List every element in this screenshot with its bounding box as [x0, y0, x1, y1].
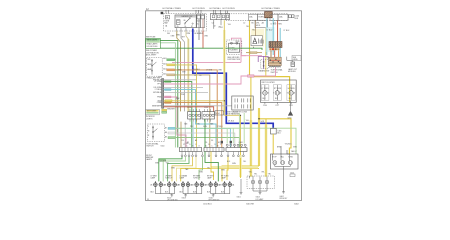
svg-text:LT BLU: LT BLU [271, 24, 277, 26]
wire license feeds [249, 176, 267, 180]
svg-text:HAZARD SW: HAZARD SW [182, 15, 193, 18]
svg-text:PPL: PPL [157, 84, 161, 86]
instrument cluster connector box [232, 96, 253, 110]
svg-text:BLK: BLK [295, 18, 299, 20]
svg-text:E1: E1 [218, 142, 220, 144]
wire pale green twin [161, 43, 176, 148]
svg-text:RR BODY: RR BODY [280, 198, 289, 200]
ground G403 center [259, 192, 262, 194]
svg-text:C220: C220 [204, 107, 208, 109]
svg-text:C202: C202 [158, 77, 162, 79]
svg-text:12: 12 [146, 8, 149, 11]
wire green lower from switch2 [176, 138, 240, 148]
wire gray drop to bar [184, 122, 186, 148]
svg-text:ORN: ORN [218, 69, 223, 71]
svg-text:B8: B8 [165, 132, 167, 134]
svg-text:TOW HARNESS: TOW HARNESS [227, 113, 240, 116]
node terminal circles row [181, 155, 244, 157]
wire yellow below connector [272, 134, 274, 154]
node ladder pin labels [152, 79, 162, 107]
svg-text:HOT AT ALL TIMES: HOT AT ALL TIMES [262, 7, 281, 10]
wire relay pins down [177, 19, 203, 31]
svg-text:BLK: BLK [151, 192, 155, 194]
junction block JB top right [211, 13, 230, 19]
lamp license 1 [251, 180, 255, 184]
lamp license 3 [265, 180, 269, 184]
node label box right edge [292, 56, 301, 61]
wire green row2 [164, 82, 192, 148]
lamp pair LF marker [154, 181, 163, 186]
wire yellow to rear right [259, 119, 291, 154]
wire cream band drop from fuse [187, 39, 189, 111]
lamp high beam indicator [287, 85, 296, 107]
svg-text:15A: 15A [249, 16, 253, 19]
ground G103 [184, 195, 187, 197]
svg-text:C2: C2 [212, 22, 214, 24]
wire white lower from switch2 [176, 133, 235, 147]
svg-text:C264: C264 [263, 105, 267, 107]
wire code cell green row [163, 57, 174, 76]
node cluster internal sub-boxes [261, 85, 295, 101]
wire terminal stubs [182, 152, 243, 155]
svg-text:TURN: TURN [288, 156, 293, 158]
connector hatched top [265, 12, 273, 18]
ground G402 [282, 192, 285, 194]
svg-text:2A: 2A [165, 25, 168, 28]
svg-text:BRN: BRN [277, 147, 281, 149]
wire yellow from switch cell [175, 65, 197, 147]
svg-text:YEL: YEL [254, 173, 257, 175]
svg-text:BLK: BLK [275, 98, 279, 100]
inline connector C2 blue end [271, 128, 277, 134]
wire code cell on green wire [160, 159, 166, 161]
fuse F2 [197, 16, 200, 19]
wire green from legend box [161, 41, 178, 148]
svg-text:87: 87 [191, 26, 193, 28]
lamp left indicator [261, 85, 270, 107]
lamp rear 3 [288, 161, 292, 165]
svg-text:B1: B1 [221, 27, 223, 29]
node pin labels above bars [180, 144, 221, 148]
svg-text:YEL: YEL [166, 163, 169, 165]
svg-text:RF TURN SIG: RF TURN SIG [209, 199, 220, 201]
wire yellow pale under distribution [211, 166, 258, 168]
wire green drop lamp6 [199, 157, 202, 180]
svg-text:A4: A4 [262, 22, 264, 25]
svg-text:G402: G402 [294, 203, 299, 205]
svg-text:S204: S204 [235, 41, 239, 43]
svg-text:YEL: YEL [252, 29, 255, 31]
svg-text:DRL MODULE: DRL MODULE [147, 46, 159, 48]
wire yellow long2 from right [181, 168, 259, 181]
lamp pair LF park turn [167, 181, 176, 186]
wire yellow core rear left [240, 158, 242, 178]
wire cyan hazard feed [266, 18, 268, 55]
hazard switch dashed box [261, 60, 268, 69]
svg-text:1F: 1F [194, 75, 196, 77]
fuse box cell 1 [248, 14, 257, 20]
svg-text:PARK: PARK [147, 63, 152, 66]
wire code cells right of box2 [162, 109, 167, 111]
connector C100 top right [289, 15, 292, 18]
headlamp switch legend box [146, 38, 161, 48]
border frame of schematic [146, 11, 302, 201]
wire pink long from switch [172, 56, 262, 63]
svg-text:PPL: PPL [190, 126, 193, 128]
svg-text:B: B [208, 144, 209, 146]
svg-text:A12: A12 [163, 57, 166, 60]
svg-text:MOD: MOD [256, 25, 261, 27]
svg-text:ORN: ORN [157, 102, 162, 104]
wire yellow cluster loop [250, 77, 290, 103]
wire yellow feed down from ign fuse [249, 21, 251, 77]
svg-text:ANTI-THEFT: ANTI-THEFT [146, 54, 157, 57]
svg-text:A14: A14 [163, 67, 166, 70]
svg-text:F: F [220, 144, 221, 146]
wire orange row9 [164, 103, 222, 148]
node note block left bottom [146, 155, 154, 161]
node colored cells under connector [269, 48, 279, 50]
ground G105 [212, 195, 215, 197]
svg-text:85: 85 [177, 26, 179, 28]
svg-text:LT TURN: LT TURN [262, 88, 270, 90]
svg-text:G401: G401 [237, 197, 241, 199]
connector row C1 left [188, 109, 201, 122]
license lamp dashed box [247, 176, 275, 188]
turn signal switch dashed box lower [147, 124, 164, 142]
svg-text:YEL: YEL [246, 26, 249, 28]
wire green cascade 1 [159, 157, 182, 182]
svg-text:LAMPS: LAMPS [146, 158, 153, 161]
svg-text:A15: A15 [163, 72, 166, 75]
wire rear lamp internals [273, 154, 291, 169]
wire blue main feed [193, 29, 273, 129]
svg-text:PARK LAMPS: PARK LAMPS [147, 38, 159, 41]
wire tan from switch cell [175, 75, 210, 147]
ground G200 chassis [290, 101, 292, 111]
wire red drop from fuse panel [202, 31, 204, 49]
wire pale yellow cascade 5 [176, 157, 196, 182]
wire pink flasher to switch [231, 38, 246, 56]
wire dark drop right of blue [198, 31, 200, 40]
svg-text:340: 340 [167, 33, 170, 35]
svg-text:HOT IN RUN: HOT IN RUN [223, 8, 236, 10]
svg-text:DK BLU: DK BLU [194, 69, 201, 71]
svg-text:E: E [217, 146, 218, 148]
svg-text:GRN: GRN [171, 168, 176, 170]
wire pale green drops [227, 113, 244, 144]
svg-text:B6: B6 [251, 23, 253, 25]
fuse F1 15A [165, 16, 169, 19]
instrument cluster indicators box [261, 80, 297, 102]
node splice dots [224, 100, 260, 119]
svg-text:TURN: TURN [258, 17, 264, 19]
svg-text:G200: G200 [287, 118, 291, 120]
resistor R1 [287, 57, 293, 62]
svg-text:2B: 2B [219, 185, 222, 187]
svg-text:B7: B7 [165, 127, 167, 129]
svg-text:A: A [205, 145, 207, 148]
svg-text:FLASHER: FLASHER [229, 49, 238, 52]
wire gray row4 [164, 87, 203, 89]
wire pale yellow band feed [251, 29, 264, 47]
svg-text:CRM: CRM [186, 33, 190, 35]
lamp pair mid right [209, 181, 218, 186]
svg-text:GRN: GRN [232, 163, 237, 165]
svg-text:2A: 2A [232, 184, 235, 187]
svg-text:BRN/WHT: BRN/WHT [167, 109, 175, 111]
svg-text:LT GRN: LT GRN [206, 69, 213, 71]
svg-text:SWITCH: SWITCH [271, 72, 279, 74]
fuse box cell 2 [258, 14, 268, 20]
svg-text:LT BLU: LT BLU [284, 30, 290, 32]
svg-text:HOT AT ALL: HOT AT ALL [210, 7, 222, 10]
node corner marker [161, 12, 164, 14]
wire pale green cascade 2 [163, 157, 185, 182]
svg-text:LIGHTS: LIGHTS [146, 118, 153, 120]
lamp right indicator [273, 85, 282, 107]
svg-text:SWITCH: SWITCH [146, 146, 154, 148]
wire pink row3 [164, 68, 276, 85]
lamp pair mid [195, 181, 204, 186]
wire cyan second [279, 28, 281, 57]
svg-text:LT BLU: LT BLU [267, 30, 273, 32]
svg-text:HI TURN: HI TURN [288, 88, 296, 90]
wire green from switch cell [174, 59, 177, 61]
svg-text:S411: S411 [261, 121, 265, 123]
svg-text:10A: 10A [197, 20, 201, 23]
node scattered wire labels [155, 20, 298, 175]
wire gray row10 [164, 105, 232, 107]
svg-text:BRN/WHT: BRN/WHT [152, 106, 162, 108]
wire to G401 [240, 179, 242, 192]
lamp rear 2 [281, 161, 285, 165]
wire pale blue drop [192, 122, 194, 148]
daytime running module box with triangle [251, 36, 263, 46]
svg-text:HAZ: HAZ [267, 57, 270, 60]
svg-text:2B: 2B [191, 185, 194, 187]
svg-text:A9: A9 [195, 139, 197, 142]
svg-text:INST CLUSTER: INST CLUSTER [262, 82, 276, 84]
svg-text:S214: S214 [216, 113, 220, 115]
svg-text:C2: C2 [243, 23, 245, 25]
wire green cascade 3 [168, 157, 189, 182]
svg-text:1C: 1C [197, 23, 200, 25]
wire ground links under lamps [155, 186, 229, 195]
wire gray row1 [164, 79, 196, 81]
svg-text:OFF: OFF [147, 59, 150, 61]
svg-text:TURN LP: TURN LP [193, 177, 201, 179]
svg-text:ORN: ORN [171, 35, 176, 37]
svg-text:SEE POWER: SEE POWER [147, 110, 158, 112]
wire cyan inner [272, 18, 274, 55]
ground G102 [170, 195, 173, 197]
connector C420 stub [290, 174, 295, 177]
turn signal connector block hatched [269, 57, 282, 67]
svg-text:2B: 2B [164, 185, 167, 187]
wire yellow drop lamp4 [211, 152, 214, 181]
junction box B+ mid [255, 20, 268, 27]
svg-text:N: N [148, 131, 150, 133]
svg-text:RED: RED [278, 24, 282, 26]
fuse F3 [201, 16, 204, 19]
wire pale green long horizontal [176, 128, 296, 154]
svg-text:TURN LP: TURN LP [165, 177, 173, 179]
wire license grounds [253, 184, 267, 193]
wire orange from switch cell [175, 70, 218, 147]
svg-text:YEL: YEL [261, 172, 264, 174]
svg-text:F: F [195, 144, 196, 146]
wire yellow branch license [265, 119, 267, 176]
wire gray row6 [164, 91, 208, 93]
svg-text:BLK: BLK [227, 161, 231, 163]
svg-text:A: A [268, 92, 270, 95]
svg-text:C6: C6 [205, 142, 207, 144]
svg-text:YEL: YEL [249, 172, 252, 174]
svg-text:GRN: GRN [221, 169, 226, 171]
wire tan to switch [246, 52, 262, 54]
fuse block dashed box [164, 14, 207, 32]
svg-text:RT TURN: RT TURN [274, 88, 282, 90]
wire yellow row8 [164, 100, 225, 102]
svg-text:HOT IN RUN: HOT IN RUN [193, 8, 206, 10]
svg-text:86: 86 [184, 20, 186, 22]
connector pins crossing top border right of JB [214, 10, 228, 15]
fuse box cell 4 [278, 14, 288, 20]
wire tan drop from fuse [177, 31, 181, 111]
svg-text:YEL: YEL [268, 173, 271, 175]
flasher unit dashed box [226, 40, 241, 55]
svg-text:G401 RR: G401 RR [246, 203, 255, 205]
wire cyan row5 [164, 90, 216, 148]
svg-text:2B: 2B [205, 185, 208, 187]
fuse cell narrow2 [201, 14, 205, 27]
fuse box cell 3 [270, 14, 278, 20]
svg-text:GRN: GRN [293, 147, 298, 149]
svg-text:C277: C277 [275, 105, 279, 107]
svg-text:D: D [189, 144, 191, 146]
wire green C220 drop [204, 119, 206, 148]
svg-text:LF TURN SIG: LF TURN SIG [167, 199, 178, 201]
connector row C2 right [202, 109, 214, 122]
svg-text:A2: A2 [214, 25, 216, 28]
svg-text:GRY: GRY [181, 37, 186, 39]
svg-text:C291: C291 [289, 105, 293, 107]
connector pins crossing top border mid [196, 10, 201, 14]
wire yellow right distribution [240, 152, 242, 176]
wire brown stub to DRL box [255, 20, 257, 35]
connector pins crossing top border left [166, 10, 169, 14]
svg-text:YEL: YEL [243, 161, 246, 163]
ignition switch dashed box top right [226, 14, 288, 21]
ground G401 left [240, 192, 243, 194]
wire yellow feed right vert [223, 30, 225, 112]
wire code cell cyan row lower [165, 127, 176, 138]
svg-text:YEL: YEL [228, 24, 231, 26]
svg-text:C150 BLU: C150 BLU [203, 203, 212, 205]
svg-text:E: E [192, 146, 193, 148]
wire yellow loop left side [250, 77, 252, 176]
svg-text:10A: 10A [279, 16, 283, 19]
wire yellow cascade 4 [172, 157, 193, 182]
svg-text:DK BLU: DK BLU [228, 121, 235, 123]
svg-text:BLU: BLU [277, 133, 281, 135]
wire yellow trunk mid core [258, 108, 260, 166]
svg-text:MODULE: MODULE [288, 71, 296, 73]
connector C150 long left [179, 148, 201, 152]
wire yellow drop lamp6b [227, 157, 228, 180]
wire yellow long from right [222, 166, 259, 181]
svg-text:LIC LAMP: LIC LAMP [256, 198, 265, 201]
relay K1 hazard flasher [175, 15, 196, 28]
svg-text:YEL: YEL [207, 167, 210, 169]
wire ground rear box [283, 169, 285, 192]
lamp rear 1 [273, 161, 277, 165]
wire gray drop from fuse [181, 31, 185, 111]
rear lamps box right [271, 154, 299, 169]
svg-text:G103: G103 [182, 198, 186, 200]
wire green drop lamp5 [205, 152, 218, 182]
svg-text:ORN: ORN [204, 35, 209, 37]
svg-text:A13: A13 [163, 62, 166, 65]
wire yellow second feed [265, 28, 267, 77]
svg-text:TAN: TAN [184, 123, 188, 126]
connector C202 bar [162, 79, 164, 109]
svg-text:C15: C15 [181, 140, 184, 142]
wire code cells on ladder rows [165, 81, 171, 104]
svg-text:STOP: STOP [272, 156, 277, 158]
wire short colored links to switch [271, 50, 278, 57]
svg-text:2B: 2B [178, 185, 181, 187]
wire yellow trunk mid [258, 108, 260, 166]
svg-text:L: L [148, 126, 149, 128]
svg-text:GRY/BLK: GRY/BLK [153, 92, 162, 94]
svg-text:BLK: BLK [165, 192, 169, 194]
lamp license 2 [258, 180, 262, 184]
turn hazard legend box2 [146, 109, 160, 114]
svg-text:HAZARD SW: HAZARD SW [258, 70, 269, 73]
lamp pair right [223, 181, 232, 186]
rear harness connector bar [226, 148, 247, 152]
svg-text:GRY: GRY [182, 72, 187, 74]
wire cyan lower from switch2 [176, 128, 231, 147]
wire pale yellow band rear left [239, 155, 241, 177]
svg-text:YEL: YEL [197, 124, 200, 126]
wire green park feed [160, 48, 262, 50]
svg-text:HEAD: HEAD [147, 68, 152, 71]
svg-text:LT BLU: LT BLU [217, 126, 223, 128]
svg-text:DISTRIBUTION: DISTRIBUTION [227, 59, 240, 61]
connector C160 long right [204, 148, 224, 152]
multifunction switch dashed box [147, 58, 163, 77]
svg-text:D3: D3 [211, 140, 213, 142]
svg-text:GRN: GRN [203, 126, 208, 128]
svg-text:S110: S110 [161, 145, 165, 147]
svg-text:B9: B9 [165, 137, 167, 139]
svg-text:LT BLU: LT BLU [155, 89, 162, 91]
svg-text:PNK: PNK [176, 98, 180, 100]
svg-text:R: R [148, 135, 150, 137]
svg-text:GRN: GRN [199, 171, 204, 173]
svg-text:BLK: BLK [263, 98, 267, 100]
svg-text:B2: B2 [187, 142, 189, 144]
svg-text:TAIL: TAIL [280, 155, 283, 158]
wire pale cyan band [266, 27, 275, 52]
wire red long [164, 107, 214, 112]
svg-text:TAIL LP: TAIL LP [291, 150, 298, 153]
joint connector label box [215, 111, 223, 115]
wire red ignition feed [277, 21, 279, 42]
